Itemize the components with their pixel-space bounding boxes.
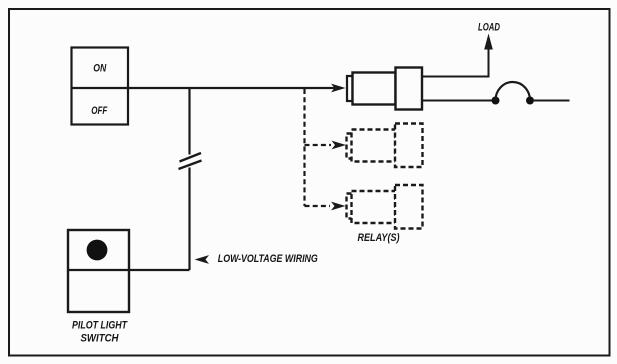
dashed wire: branch to relay K3 — [305, 205, 331, 207]
wire: switch to relay — [128, 87, 336, 89]
relay K1 (solid) — [347, 68, 422, 110]
relay K2 (dashed) — [347, 124, 423, 168]
pilot light switch box — [68, 230, 129, 312]
wire: contact to right — [534, 100, 570, 102]
relay K3 (dashed) — [347, 185, 423, 229]
wire: relay K1 to contact — [422, 100, 496, 102]
svg-text:PILOT LIGHT: PILOT LIGHT — [72, 320, 128, 332]
junction dot left — [492, 97, 500, 105]
wire-break symbol — [179, 153, 202, 169]
svg-text:ON: ON — [93, 63, 107, 75]
svg-text:RELAY(S): RELAY(S) — [358, 232, 400, 244]
svg-text:LOW-VOLTAGE WIRING: LOW-VOLTAGE WIRING — [218, 253, 318, 265]
arrowhead into relay K2 — [332, 141, 347, 150]
arrowhead pointing to low-voltage wire — [195, 255, 210, 264]
wire: relay K1 to LOAD — [422, 48, 489, 77]
svg-text:OFF: OFF — [91, 105, 107, 117]
pilot light lamp (filled circle) — [87, 240, 108, 261]
arrowhead into relay K1 — [331, 84, 346, 93]
arrowhead to LOAD — [484, 34, 493, 50]
arrowhead into relay K3 — [331, 202, 346, 211]
dashed wire: branch to relay K2 — [305, 144, 332, 146]
crossover hump — [496, 82, 531, 100]
junction dot right — [526, 97, 534, 105]
svg-text:SWITCH: SWITCH — [81, 333, 120, 345]
switch S1 (ON/OFF) box — [72, 48, 129, 125]
dashed wire: vertical branch to relays — [303, 89, 305, 206]
wire: vertical low-voltage run — [130, 88, 190, 270]
svg-text:LOAD: LOAD — [478, 22, 500, 34]
